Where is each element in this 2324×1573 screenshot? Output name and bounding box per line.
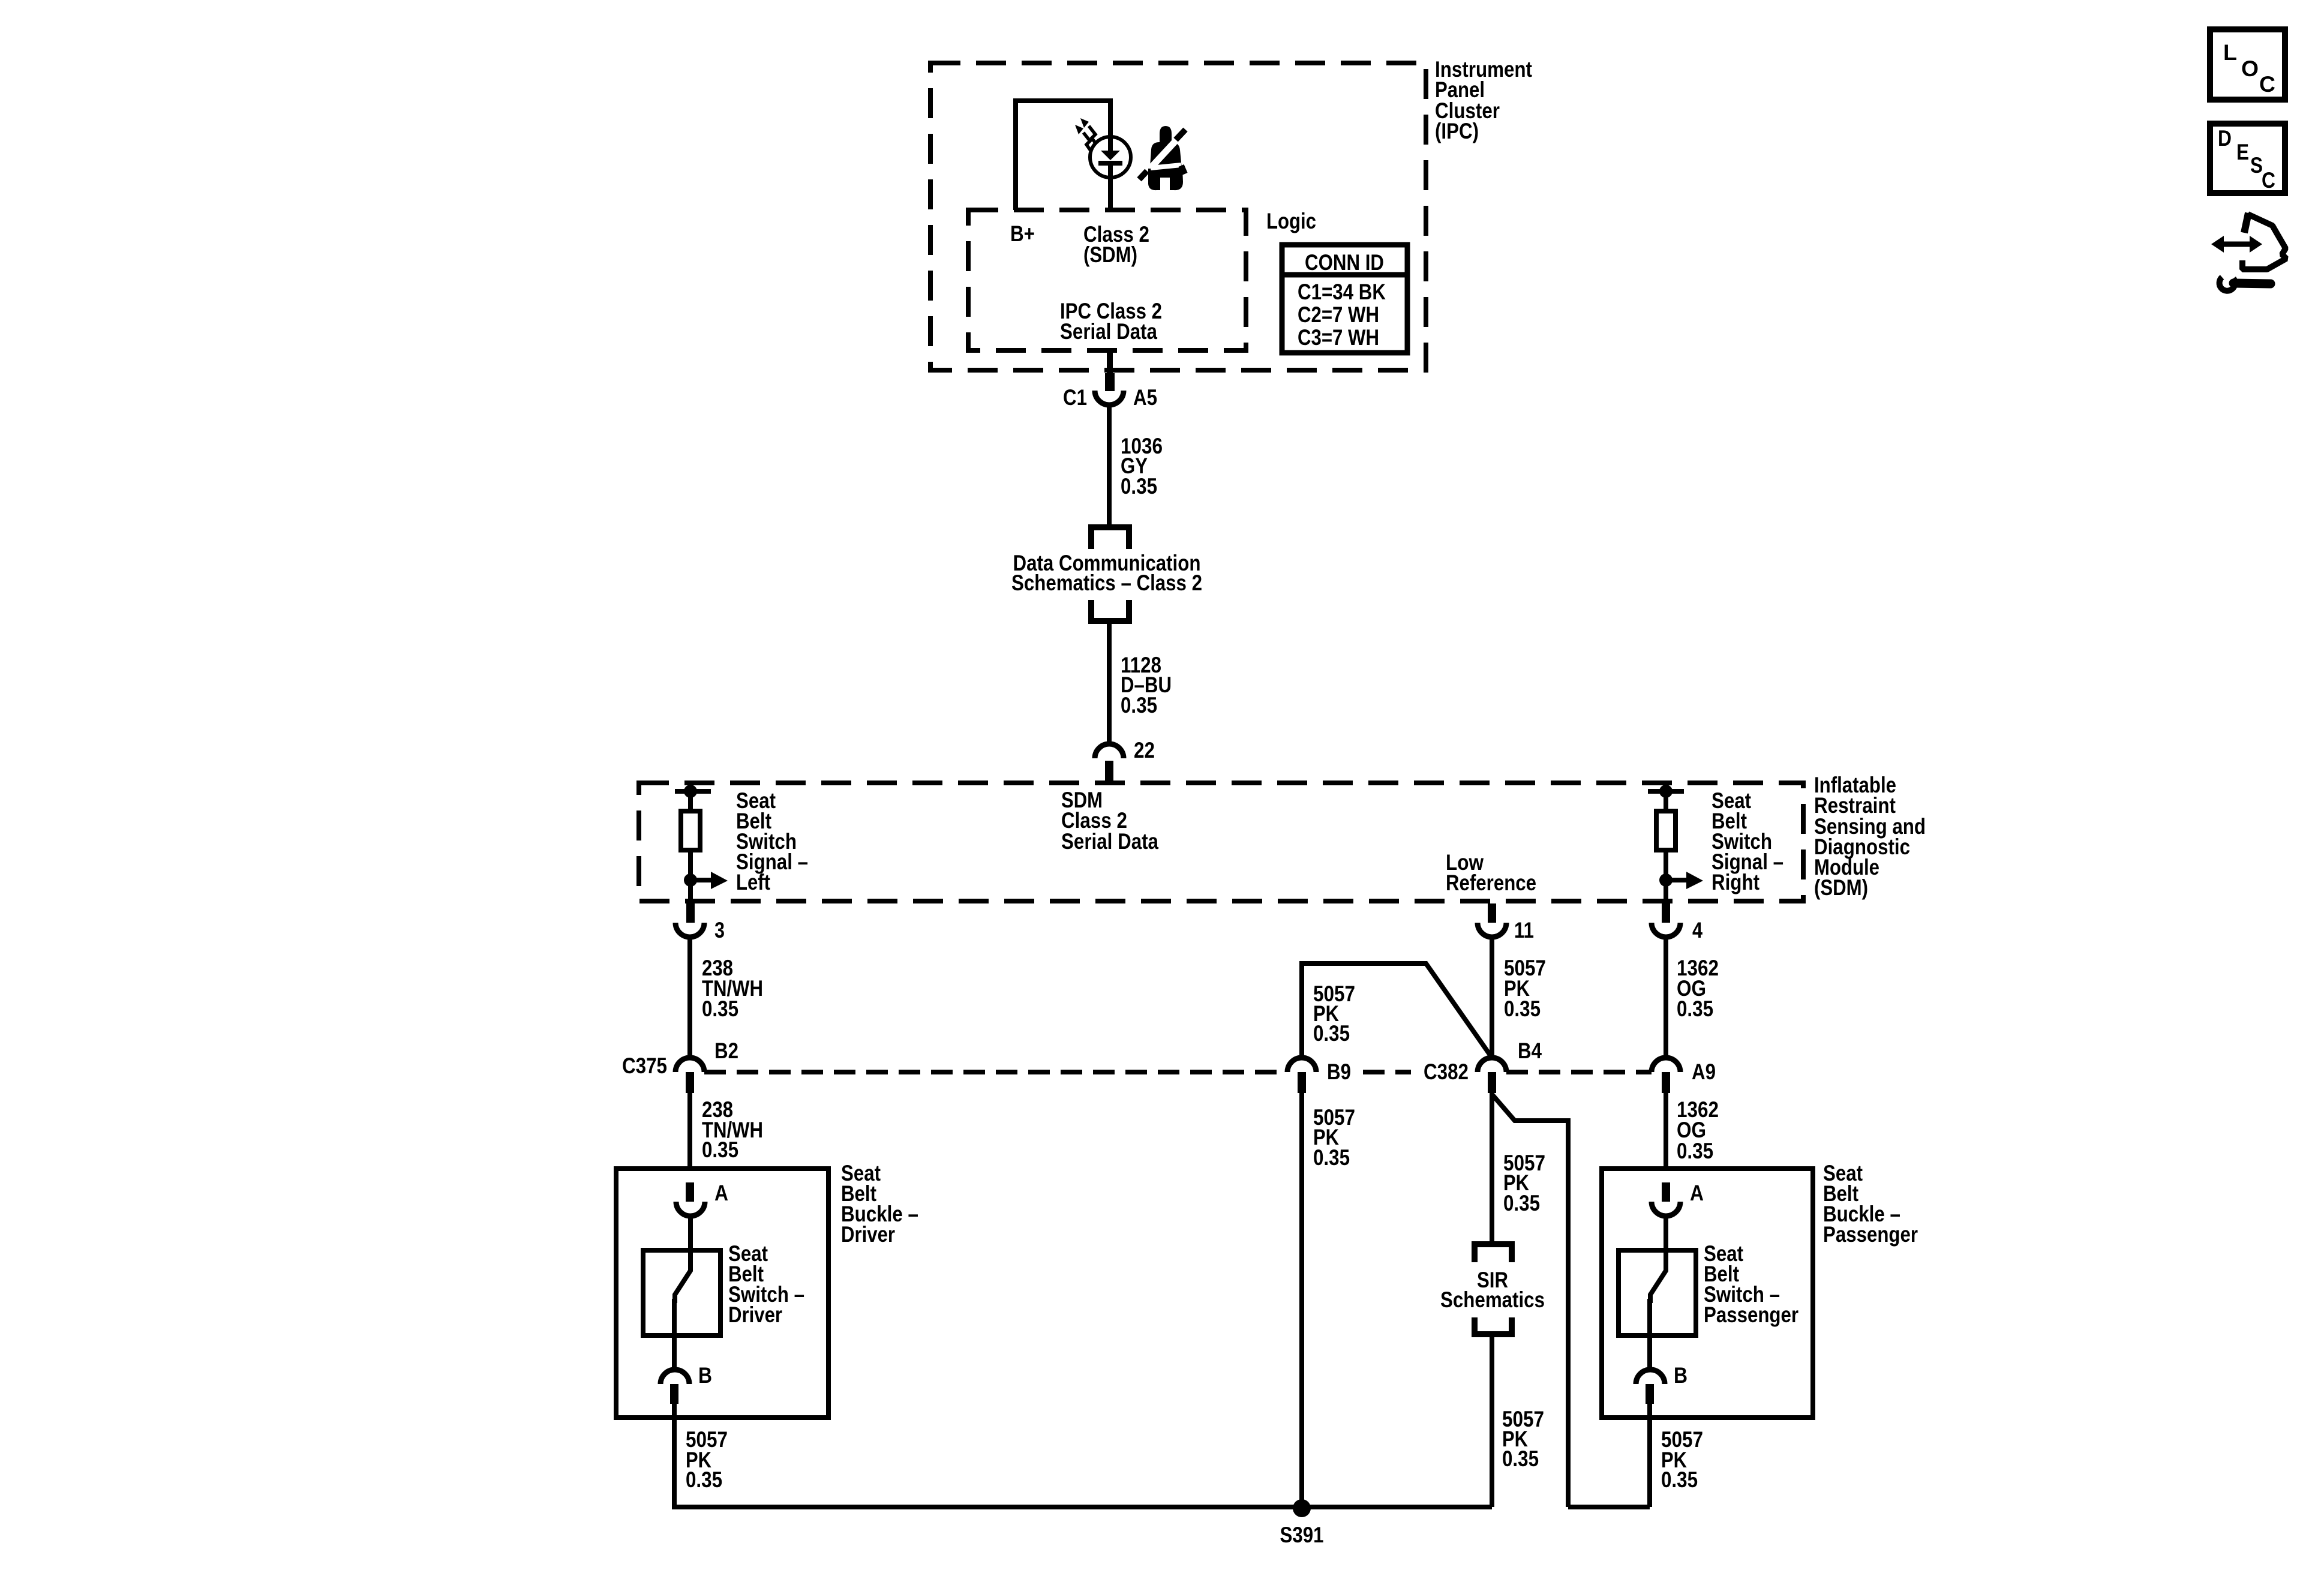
svg-text:0.35: 0.35 xyxy=(702,996,738,1021)
svg-text:Serial Data: Serial Data xyxy=(1061,829,1158,854)
svg-text:Passenger: Passenger xyxy=(1823,1222,1918,1247)
box: Seat Belt Buckle - Driver xyxy=(616,1169,828,1418)
connector pin 4 xyxy=(1652,903,1703,942)
label: Low Reference xyxy=(1446,850,1536,895)
svg-text:B: B xyxy=(1674,1363,1688,1388)
label: Inflatable Restraint Sensing and Diagnostic Module (SDM) xyxy=(1814,773,1926,900)
svg-text:Left: Left xyxy=(736,870,770,894)
svg-text:Driver: Driver xyxy=(728,1302,782,1327)
off-page reference: Data Communication Schematics - Class 2 xyxy=(1011,527,1202,621)
svg-text:0.35: 0.35 xyxy=(1502,1446,1539,1471)
wire 238 TN/WH below B2 xyxy=(687,1093,692,1169)
svg-text:C1=34 BK: C1=34 BK xyxy=(1298,280,1386,304)
svg-text:C3=7 WH: C3=7 WH xyxy=(1298,325,1379,350)
svg-text:0.35: 0.35 xyxy=(1661,1467,1698,1492)
wire: B4 to SIR schematics xyxy=(1490,1093,1494,1244)
label: Seat Belt Switch Signal - Left xyxy=(736,788,808,894)
box: SDM dashed outline xyxy=(639,783,1803,901)
svg-text:C375: C375 xyxy=(622,1053,667,1078)
LED seat belt indicator lamp xyxy=(1090,137,1131,178)
svg-text:C1: C1 xyxy=(1063,385,1087,410)
box: Logic dashed outline xyxy=(968,210,1246,350)
svg-text:S: S xyxy=(2250,153,2263,178)
switch: Seat Belt Switch - Driver xyxy=(643,1250,720,1371)
svg-text:0.35: 0.35 xyxy=(1313,1145,1350,1170)
svg-text:4: 4 xyxy=(1692,918,1703,942)
svg-text:C382: C382 xyxy=(1424,1059,1469,1084)
connector C382 pin B4 xyxy=(1424,1038,1542,1093)
svg-text:0.35: 0.35 xyxy=(686,1467,722,1492)
wire 1128 D-BU 0.35 xyxy=(1107,621,1112,744)
svg-text:0.35: 0.35 xyxy=(1503,1191,1540,1215)
connector C1 pin A5 xyxy=(1063,350,1157,410)
wire 5057 PK pin11 to B4 xyxy=(1490,937,1494,1058)
svg-text:O: O xyxy=(2241,56,2259,81)
svg-text:S391: S391 xyxy=(1280,1523,1324,1547)
wire: dashed in-line B2 to B9 xyxy=(704,1070,1287,1074)
svg-text:Right: Right xyxy=(1712,870,1759,894)
label: SDM Class 2 Serial Data xyxy=(1061,788,1158,854)
svg-text:C: C xyxy=(2259,72,2275,97)
node: left signal junction with arrow xyxy=(684,872,728,889)
wire: dashed in-line B4 to A9 xyxy=(1506,1070,1652,1074)
svg-text:(IPC): (IPC) xyxy=(1435,119,1479,143)
svg-text:A9: A9 xyxy=(1692,1059,1716,1084)
svg-text:22: 22 xyxy=(1134,738,1155,763)
wire: passenger bottom jog xyxy=(1568,1505,1650,1509)
icon: DESC navigation box xyxy=(2210,124,2285,193)
svg-text:Schematics: Schematics xyxy=(1440,1287,1545,1312)
connector pin 3 xyxy=(675,903,725,942)
connector C382 pin A9 xyxy=(1652,1058,1716,1093)
label: Class 2 (SDM) xyxy=(1083,222,1149,267)
svg-text:0.35: 0.35 xyxy=(1313,1021,1350,1046)
node: right signal junction with arrow xyxy=(1659,872,1703,889)
connector pin B passenger xyxy=(1636,1363,1688,1404)
wire: bottom bus to S391 xyxy=(672,1505,1492,1509)
svg-text:CONN ID: CONN ID xyxy=(1305,250,1384,275)
svg-text:A: A xyxy=(714,1181,728,1205)
svg-text:Logic: Logic xyxy=(1266,209,1316,233)
svg-text:B: B xyxy=(698,1363,712,1388)
wire: B4 jog down to passenger branch xyxy=(1492,1094,1568,1507)
wire to switch driver xyxy=(688,1216,693,1250)
box: Instrument Panel Cluster (IPC) dashed outline xyxy=(930,63,1426,370)
wire 1036 GY 0.35 xyxy=(1107,405,1112,527)
svg-text:B4: B4 xyxy=(1518,1038,1542,1063)
icon: seat belt person xyxy=(1139,126,1185,190)
resistor: seat belt switch signal left xyxy=(675,785,711,905)
box: Seat Belt Buckle - Passenger xyxy=(1602,1169,1813,1418)
svg-text:0.35: 0.35 xyxy=(1504,996,1541,1021)
svg-text:A5: A5 xyxy=(1133,385,1157,410)
svg-text:(SDM): (SDM) xyxy=(1083,242,1137,267)
svg-text:(SDM): (SDM) xyxy=(1814,875,1868,900)
icon: dog head with double arrow and wrench xyxy=(2211,213,2286,291)
icon: LOC navigation box xyxy=(2210,29,2285,100)
wire 5057 PK below driver buckle xyxy=(672,1404,677,1507)
svg-text:Driver: Driver xyxy=(841,1222,895,1247)
svg-text:C: C xyxy=(2262,168,2275,193)
wire 238 TN/WH upper xyxy=(687,937,692,1058)
wire to switch passenger xyxy=(1664,1216,1668,1250)
LED emission arrows xyxy=(1075,118,1096,151)
label: IPC Class 2 Serial Data xyxy=(1060,299,1162,344)
label: Seat Belt Switch Signal - Right xyxy=(1712,788,1783,894)
wire 1362 OG below A9 xyxy=(1664,1093,1668,1169)
off-page reference: SIR Schematics xyxy=(1440,1244,1545,1334)
connector pin 11 xyxy=(1478,903,1534,942)
svg-text:Schematics – Class 2: Schematics – Class 2 xyxy=(1011,571,1202,595)
connector pin 22 into SDM xyxy=(1095,738,1155,782)
svg-text:0.35: 0.35 xyxy=(1121,474,1157,499)
wire 1362 OG upper xyxy=(1664,937,1668,1058)
svg-text:E: E xyxy=(2236,140,2249,164)
label: Instrument Panel Cluster (IPC) xyxy=(1435,57,1532,143)
svg-text:A: A xyxy=(1690,1181,1704,1205)
svg-text:0.35: 0.35 xyxy=(1677,1139,1713,1163)
svg-text:Reference: Reference xyxy=(1446,870,1536,895)
svg-text:L: L xyxy=(2223,40,2237,65)
svg-text:0.35: 0.35 xyxy=(1121,693,1157,718)
wire 5057 PK jog B9 to B4 xyxy=(1302,963,1492,1058)
svg-text:B9: B9 xyxy=(1327,1059,1351,1084)
svg-text:Passenger: Passenger xyxy=(1704,1302,1798,1327)
wire 5057 PK below passenger buckle xyxy=(1647,1404,1652,1507)
svg-text:B2: B2 xyxy=(714,1038,738,1063)
connector pin B driver xyxy=(660,1363,712,1404)
splice S391 xyxy=(1280,1499,1324,1547)
connector pin A driver xyxy=(676,1181,728,1216)
svg-text:C2=7 WH: C2=7 WH xyxy=(1298,302,1379,327)
connector C375 pin B9 xyxy=(1287,1058,1351,1093)
connector pin A passenger xyxy=(1652,1181,1704,1216)
svg-text:D: D xyxy=(2218,126,2232,151)
wire: dashed in-line B9 to C382 xyxy=(1363,1070,1411,1074)
switch: Seat Belt Switch - Passenger xyxy=(1619,1250,1696,1371)
wire: SIR schematics to S391 xyxy=(1490,1334,1494,1507)
svg-text:0.35: 0.35 xyxy=(702,1137,738,1162)
wire 5057 PK below B9 to S391 xyxy=(1299,1093,1304,1507)
svg-text:11: 11 xyxy=(1514,918,1534,942)
svg-text:3: 3 xyxy=(714,918,725,942)
resistor: seat belt switch signal right xyxy=(1648,785,1684,905)
svg-text:Serial Data: Serial Data xyxy=(1060,319,1157,344)
wire: LED cathode to logic xyxy=(1108,163,1113,210)
wire: B+ feed loop xyxy=(1016,101,1110,210)
svg-text:0.35: 0.35 xyxy=(1677,996,1713,1021)
svg-text:B+: B+ xyxy=(1010,221,1035,246)
connector C375 pin B2 xyxy=(622,1038,738,1093)
table: CONN ID xyxy=(1282,245,1407,353)
